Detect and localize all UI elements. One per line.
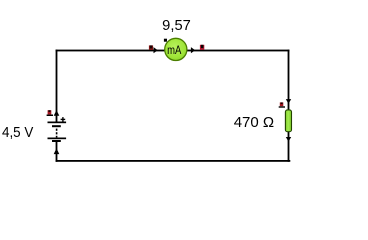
terminal marker (resistor top) — [279, 102, 285, 107]
resistor R1 body — [285, 110, 291, 132]
current arrow (above resistor, down) — [286, 99, 291, 104]
wire top-right segment — [186, 50, 289, 52]
terminal marker (ammeter right) — [200, 45, 204, 50]
ammeter U1 body — [165, 38, 187, 60]
wire bottom — [56, 160, 291, 162]
current arrow (left of ammeter, right) — [154, 47, 158, 53]
svg-text:4,5 V: 4,5 V — [2, 125, 34, 141]
svg-text:9,57: 9,57 — [162, 18, 191, 34]
svg-text:mA: mA — [167, 44, 181, 57]
wire right (resistor to bottom corner) — [288, 131, 290, 161]
current arrow (below battery, up) — [54, 148, 60, 154]
wire left (battery to bottom corner) — [56, 142, 58, 162]
current arrow (right of ammeter, right) — [191, 47, 195, 53]
wire left (top corner to battery) — [56, 50, 58, 122]
current arrow (above battery, up) — [54, 110, 60, 116]
battery B1 4,5V cell plates — [48, 122, 67, 143]
terminal marker (battery top) — [47, 110, 53, 116]
wire top-left segment — [56, 50, 166, 52]
label anchor dot — [164, 39, 167, 42]
battery plus sign — [61, 117, 66, 122]
terminal marker (ammeter left) — [149, 45, 153, 49]
wire right (top corner to resistor) — [288, 50, 290, 111]
current arrow (below resistor, down) — [286, 137, 291, 142]
svg-text:470 Ω: 470 Ω — [234, 114, 274, 131]
